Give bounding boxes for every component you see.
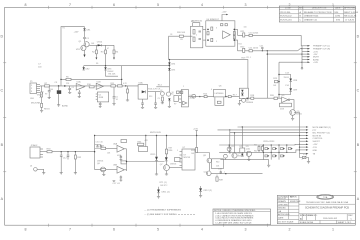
- svg-text:C10 10/25: C10 10/25: [249, 32, 259, 34]
- op-amp U6B: [117, 166, 124, 173]
- svg-text:U1B: U1B: [97, 81, 102, 83]
- matrix column 3 junction mid: [278, 152, 279, 153]
- junction rail R12: [125, 85, 126, 86]
- transistor Q11: [207, 171, 212, 176]
- capacitor C17 below U6B: [120, 176, 122, 177]
- wire upper output long: [238, 34, 302, 36]
- wire cluster to right link: [127, 161, 165, 163]
- svg-text:MIC/LINE: MIC/LINE: [31, 103, 41, 105]
- fscm cell divider: [306, 214, 308, 221]
- bus fan row 8: [299, 147, 300, 148]
- svg-text:DATE: DATE: [335, 7, 341, 10]
- zone tick top 5-4: [135, 6, 137, 9]
- inner parts row top: [221, 24, 223, 26]
- svg-text:APPROVED: APPROVED: [278, 213, 290, 216]
- line input wire: [52, 151, 95, 153]
- fan row 2 arrow: [308, 48, 311, 50]
- wire QM2 tail: [224, 158, 226, 160]
- wire CR10 to Q7: [166, 161, 168, 165]
- svg-text:PREAMP OUT (L): PREAMP OUT (L): [313, 45, 330, 48]
- zone tick bottom 5-4: [135, 224, 137, 227]
- wire R3 to rail: [105, 54, 107, 66]
- relay K1 box: [174, 96, 178, 102]
- transistor Q2: [81, 45, 86, 50]
- vertical feed with diodes: [168, 60, 170, 92]
- wire C19 ground: [229, 149, 231, 152]
- diode CR2 below rail: [83, 66, 85, 68]
- ground below rail 3: [268, 160, 270, 166]
- svg-text:1: 1: [177, 150, 178, 152]
- svg-text:2N3904: 2N3904: [170, 164, 176, 166]
- relay K2 box: [240, 148, 245, 152]
- fan row 1 arrow: [308, 45, 311, 47]
- matrix diode CR21: [265, 155, 268, 157]
- svg-text:C17 .01: C17 .01: [113, 183, 121, 185]
- svg-text:-15V: -15V: [313, 147, 318, 149]
- svg-text:RT1 (1): RT1 (1): [160, 182, 167, 184]
- diode inside S1: [142, 90, 146, 93]
- wire CR3 lower branch: [106, 70, 119, 76]
- title block left row rules: [277, 199, 299, 201]
- ground below Q2a resistor: [161, 101, 163, 103]
- svg-text:7: 7: [69, 3, 71, 7]
- svg-text:MUTE MASTER (1): MUTE MASTER (1): [313, 126, 332, 129]
- transistor Q5: [290, 110, 296, 116]
- feedback box U9: [280, 103, 292, 107]
- op-amp U4A triangle: [223, 31, 231, 39]
- svg-text:5: 5: [157, 228, 159, 232]
- svg-text:NOTES: UNLESS OTHERWISE SPECIF: NOTES: UNLESS OTHERWISE SPECIFIED: [214, 210, 256, 212]
- capacitor C11 series lower: [249, 50, 252, 52]
- drop C13a: [67, 151, 68, 152]
- resistor RA2 inside: [193, 37, 195, 42]
- matrix column 2 wire: [270, 145, 272, 160]
- resistor R21 on upper output: [243, 33, 245, 37]
- legend dash tail: [178, 213, 196, 215]
- transistor Q3: [192, 94, 196, 98]
- title area lower divider: [299, 213, 355, 215]
- connector J2 pin ticks: [40, 148, 43, 150]
- svg-text:4: 4: [201, 3, 203, 7]
- svg-text:10K NTC: 10K NTC: [160, 185, 168, 187]
- wire feedback left leg: [169, 36, 193, 59]
- revision table row rule 2: [279, 16, 355, 18]
- bus fan row 4: [299, 135, 300, 136]
- svg-text:C8: C8: [170, 34, 172, 36]
- svg-text:REV: REV: [299, 8, 304, 10]
- junction U6 out: [225, 96, 226, 97]
- zone tick bottom 3-2: [223, 224, 225, 227]
- svg-text:3: 3: [216, 28, 217, 30]
- scale row divider: [299, 219, 355, 221]
- small resistor pair B: [180, 91, 183, 94]
- svg-text:DRAWN: DRAWN: [278, 200, 286, 203]
- fan row 7 junction: [301, 62, 302, 63]
- svg-text:100: 100: [244, 27, 247, 29]
- wire U6 out: [225, 96, 239, 98]
- junction R36: [166, 135, 167, 136]
- svg-text:ZONE: ZONE: [285, 8, 291, 10]
- svg-text:+24V: +24V: [74, 31, 80, 33]
- resistor R25 beside drop: [275, 80, 278, 82]
- wire U4 out upper jog: [235, 29, 238, 35]
- junction U4 out lower: [234, 39, 236, 41]
- svg-text:RELEASE TO PRODUCTION: RELEASE TO PRODUCTION: [304, 11, 332, 14]
- ground sym small left: [113, 180, 116, 182]
- svg-text:+15V: +15V: [222, 12, 228, 14]
- resistor pair RA: [258, 146, 260, 150]
- svg-text:5: 5: [216, 41, 217, 43]
- fan row 2 junction: [301, 48, 302, 49]
- wire drop R2: [95, 45, 97, 50]
- IC U7 box: [182, 149, 195, 170]
- svg-text:R42: R42: [254, 150, 257, 152]
- vcc stub: [222, 15, 226, 21]
- ground below R12a: [126, 99, 129, 101]
- svg-text:R6: R6: [96, 63, 98, 65]
- connector J2: [30, 147, 40, 158]
- wire K2 drop: [241, 127, 243, 148]
- junction rail B: [64, 85, 66, 87]
- wire diode return: [279, 91, 291, 94]
- wire lower to bus row2: [298, 49, 302, 51]
- wire U5 out: [188, 96, 213, 98]
- matrix column 3 wire: [278, 145, 280, 160]
- junction bias vertical: [60, 79, 61, 80]
- svg-text:2: 2: [289, 228, 291, 232]
- op-amp triangle inside U5: [183, 101, 187, 105]
- zone tick top 7-6: [48, 6, 50, 9]
- ground below RT2: [307, 161, 310, 163]
- junction U4 out upper: [234, 29, 236, 31]
- wire into Q6: [95, 165, 101, 169]
- wire RA tail: [258, 150, 260, 152]
- svg-text:MUTE BUS: MUTE BUS: [150, 132, 161, 134]
- long control wire: [95, 135, 300, 137]
- wire R39 stub: [216, 175, 218, 177]
- ground arrow below Q2: [83, 55, 85, 58]
- diode CR3 below rail: [105, 66, 107, 68]
- svg-text:R8 1K: R8 1K: [44, 108, 50, 110]
- U5 pin stubs: [179, 91, 182, 93]
- svg-text:— (1) THIS ASSEMBLY SUPERSEDES: — (1) THIS ASSEMBLY SUPERSEDES: [144, 208, 181, 211]
- wire VR2 to R8: [41, 97, 43, 103]
- resistor R18 series: [251, 97, 254, 99]
- fan row 2 wire: [302, 48, 308, 50]
- matrix left transistor QM2: [224, 154, 228, 158]
- resistor R16 in loop: [217, 101, 221, 103]
- capacitor C6: [113, 96, 116, 98]
- jack J3 circle: [34, 168, 38, 172]
- revision table column line rev/desc: [302, 6, 304, 22]
- wire J2 to line bus: [43, 151, 47, 153]
- capacitor C16 between amps: [120, 155, 122, 157]
- resistor R8: [41, 103, 43, 107]
- svg-text:CONTROL: CONTROL: [313, 138, 324, 140]
- svg-text:U4 SSM2017: U4 SSM2017: [207, 19, 220, 21]
- capacitor C6a below U1: [99, 102, 101, 104]
- wire QM1 top: [228, 145, 230, 147]
- svg-text:+15V: +15V: [313, 51, 319, 53]
- wire RB stub: [261, 145, 263, 146]
- zone tick bottom 2-1: [267, 224, 269, 227]
- bus fan row 9: [299, 149, 300, 150]
- ground below C3: [57, 104, 60, 106]
- IC box U5: [181, 90, 188, 107]
- wire long wire to FB1: [145, 136, 147, 147]
- notes box: [213, 209, 271, 225]
- wire QM1 bottom: [228, 151, 230, 152]
- vcc arrow: [226, 14, 228, 16]
- junction rail A: [58, 85, 60, 87]
- bus fan row 1: [238, 126, 307, 128]
- junction link: [126, 161, 127, 162]
- company logo oval: [317, 195, 334, 200]
- IC U1 pin stubs: [96, 93, 98, 95]
- svg-text:Q2: Q2: [160, 90, 162, 92]
- wire caps link: [95, 144, 101, 146]
- capacitor C12: [60, 154, 63, 156]
- svg-text:R13: R13: [149, 96, 152, 98]
- svg-text:C: C: [357, 89, 360, 93]
- matrix column 3 junction top: [278, 144, 279, 145]
- capacitor C10 series upper: [249, 34, 252, 36]
- svg-text:CR11 (2): CR11 (2): [161, 191, 170, 193]
- cap CA2 inside: [199, 38, 202, 40]
- svg-text:CR15: CR15: [150, 154, 156, 156]
- svg-text:SHEET 1 OF 1: SHEET 1 OF 1: [338, 222, 353, 224]
- zone tick right C-B: [354, 116, 357, 118]
- revision table column line desc/date: [332, 6, 334, 22]
- junction U4 in upper: [207, 29, 209, 31]
- ground below C7m: [155, 104, 157, 107]
- resistor R5 on bias branch: [66, 78, 71, 80]
- matrix diode CR20: [265, 148, 268, 150]
- wire U6B out: [124, 169, 126, 171]
- fan row 6 wire: [302, 59, 308, 61]
- resistor RG5: [233, 36, 235, 39]
- resistor R39 vertical: [216, 177, 218, 181]
- capacitor C3 electrolytic: [58, 86, 60, 90]
- svg-text:REV: REV: [348, 215, 353, 217]
- resistor below Q2a: [161, 97, 163, 101]
- wire R2 tail arrow: [95, 54, 97, 58]
- resistor R36 vertical: [165, 149, 167, 154]
- svg-text:D: D: [357, 35, 360, 39]
- wire main lower rail: [40, 85, 138, 87]
- connector P1 pin 5: [37, 92, 41, 94]
- wire R36 top: [166, 136, 168, 150]
- resistor RG2: [211, 27, 213, 30]
- wire Q6 ground: [103, 172, 105, 175]
- matrix column 1 wire: [262, 145, 264, 160]
- resistor R11 series: [111, 85, 116, 87]
- svg-text:4558: 4558: [280, 109, 284, 111]
- ground below CR12b: [199, 195, 202, 197]
- wire J3 ground drop: [43, 169, 45, 172]
- connector P1 pin 4: [37, 90, 41, 92]
- wire RT2 ground: [306, 158, 309, 162]
- connector P1 pin 1: [37, 84, 41, 86]
- wire U4 out lower jog: [235, 40, 238, 51]
- svg-text:RP1: RP1: [191, 21, 195, 23]
- junction return top: [169, 59, 170, 60]
- svg-text:2: 2: [196, 35, 197, 37]
- branch to diode pair: [279, 75, 291, 79]
- svg-text:R38: R38: [169, 148, 172, 150]
- main upper rail: [84, 65, 170, 67]
- transistor Q8: [207, 158, 212, 163]
- zone tick bottom 7-6: [48, 224, 50, 227]
- transistor Q2a: [161, 92, 165, 96]
- wire between diodes: [290, 81, 292, 88]
- svg-text:3: 3: [245, 3, 247, 7]
- control bus vertical: [299, 115, 301, 154]
- diode CR6: [241, 90, 243, 92]
- dwgno cell divider: [314, 214, 316, 221]
- wire R4 tail arrow: [113, 54, 115, 58]
- matrix diode CR25: [281, 155, 284, 157]
- wire drop C2a: [48, 86, 50, 91]
- zone tick top 6-5: [91, 6, 93, 9]
- zone tick right D-C: [354, 62, 357, 64]
- matrix diode CR22: [273, 148, 276, 150]
- svg-text:PREAMP OUT (R): PREAMP OUT (R): [313, 48, 330, 51]
- cap CA1 inside: [199, 30, 202, 32]
- wire CR11 ground: [158, 193, 160, 197]
- junction drop diode return: [278, 94, 279, 95]
- svg-text:R6 22K: R6 22K: [109, 74, 117, 76]
- ground below J3: [42, 172, 45, 174]
- feedback box FBb: [121, 161, 127, 164]
- svg-text:— (2) SEE SHEET 2 FOR WIRING: — (2) SEE SHEET 2 FOR WIRING: [144, 214, 177, 216]
- wire drop C7m: [155, 92, 157, 103]
- revision table column line zone/rev: [297, 6, 299, 22]
- wire J3 tail: [37, 168, 44, 170]
- matrix left transistor QM1: [227, 147, 231, 151]
- capacitor C13a: [67, 154, 70, 156]
- transistor Q4: [242, 98, 246, 102]
- junction out wire: [225, 173, 226, 174]
- diode CR12: [241, 154, 243, 157]
- svg-text:MB 10-21-94: MB 10-21-94: [344, 15, 357, 17]
- resistor pair RB: [261, 146, 263, 150]
- svg-text:MUTE IN: MUTE IN: [313, 135, 322, 137]
- junction FB1: [145, 135, 146, 136]
- resistor R30 series: [47, 151, 52, 153]
- svg-text:C11 .1: C11 .1: [246, 57, 251, 59]
- junction sense wire top: [94, 135, 95, 136]
- matrix column 1 junction top: [263, 144, 264, 145]
- diode CR10a: [156, 135, 157, 136]
- wire bus top feed: [300, 35, 303, 45]
- svg-text:4558: 4558: [117, 155, 121, 157]
- svg-text:DO NOT SCALE: DO NOT SCALE: [278, 221, 294, 224]
- wire pin2 to rail: [39, 85, 41, 88]
- wire Q8 Q11 link: [208, 163, 210, 171]
- ground below vertical: [168, 105, 171, 107]
- wire R32 ground: [74, 159, 76, 173]
- revision table column line date/appr: [342, 6, 344, 22]
- notes header rule: [213, 210, 271, 212]
- fan row 7 arrow: [308, 61, 311, 63]
- svg-text:C9: C9: [158, 98, 160, 100]
- revision table header rule: [279, 9, 355, 11]
- svg-text:GND: GND: [30, 98, 35, 100]
- diode CR1: [83, 28, 85, 31]
- ground below CR11: [157, 196, 160, 198]
- bus fan row 7: [299, 144, 300, 145]
- svg-text:ECN 95-031: ECN 95-031: [280, 20, 292, 22]
- ground below C17: [120, 178, 122, 180]
- stub above long wire: [196, 131, 198, 136]
- resistor RG3: [211, 38, 213, 41]
- svg-text:6: 6: [113, 3, 115, 7]
- bus terminal circle: [301, 67, 303, 69]
- capacitor C2a: [48, 90, 51, 92]
- bus lower stub RT2: [300, 154, 303, 158]
- svg-text:2N3906: 2N3906: [296, 114, 302, 116]
- wire R35 to opamp B: [106, 168, 117, 170]
- svg-text:TOA: TOA: [323, 196, 328, 199]
- connector P1: [30, 83, 37, 94]
- wire gate feed vertical: [266, 51, 268, 98]
- small box right of Q7: [175, 158, 181, 162]
- junction sense line: [94, 151, 95, 152]
- svg-text:U1A: U1A: [77, 81, 82, 84]
- transistor Q7: [164, 165, 170, 171]
- capacitor below S1: [142, 99, 144, 103]
- diode CR9: [289, 88, 292, 91]
- diode CR12b: [199, 188, 202, 191]
- svg-text:R20 10K: R20 10K: [177, 32, 186, 34]
- matrix column 4 junction top: [286, 144, 287, 145]
- wire Q5 base bus: [294, 113, 300, 115]
- wire R37 down: [196, 151, 198, 153]
- svg-text:MIC PRIORITY (2): MIC PRIORITY (2): [313, 133, 331, 135]
- wire U6A out: [124, 148, 126, 150]
- junction rail R3: [105, 65, 106, 66]
- svg-text:J2 AUX: J2 AUX: [31, 144, 39, 147]
- svg-text:AGND: AGND: [62, 104, 69, 107]
- wire drop C4: [69, 86, 71, 88]
- wire bias branch: [61, 78, 122, 80]
- wire C6 ground: [113, 98, 115, 104]
- wire CR11 top: [158, 187, 160, 190]
- feedback box FB1: [139, 147, 148, 152]
- switch box S1: [138, 85, 148, 100]
- matrix column 4 wire: [286, 145, 288, 152]
- diode CR7: [241, 93, 243, 95]
- wire C2a ground: [48, 92, 50, 98]
- size cell divider: [301, 214, 303, 221]
- revision table box: [279, 6, 355, 22]
- matrix elbow to bus mid: [293, 150, 300, 152]
- junction rail vertical: [121, 85, 123, 87]
- junction U4 in lower: [207, 39, 209, 41]
- wire C3 to ground: [58, 94, 60, 105]
- wire C12 ground: [60, 156, 62, 172]
- wire C1 to Q1: [84, 39, 86, 42]
- resistor R15 series: [204, 96, 207, 98]
- wire drop C6: [113, 87, 115, 97]
- svg-text:PROD REL: PROD REL: [280, 12, 291, 14]
- svg-text:CHECKED: CHECKED: [278, 204, 289, 206]
- svg-text:M.BROWN: M.BROWN: [290, 201, 301, 203]
- wire Q4 emitter ground: [239, 100, 241, 103]
- wire mic line: [89, 44, 114, 46]
- capacitor C4: [68, 87, 71, 89]
